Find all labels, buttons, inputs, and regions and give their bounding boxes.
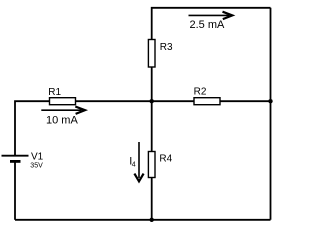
battery V1 [2, 152, 44, 170]
resistor R3 [148, 40, 173, 68]
junction node (bottom) [150, 218, 154, 222]
resistor R1 [48, 87, 75, 105]
wire middle (R1 to R2) [76, 100, 195, 102]
current arrow 10 mA [41, 107, 85, 114]
svg-text:4: 4 [132, 161, 136, 168]
junction node (middle) [150, 99, 154, 103]
wire middle left (left column to R1) [15, 101, 50, 155]
wire R3 bottom to middle node [151, 67, 153, 101]
wire middle node to R4 top [151, 101, 153, 151]
current arrow 2.5 mA [189, 12, 233, 19]
wire battery bottom to bottom wire [14, 161, 16, 219]
wire bottom [15, 219, 271, 221]
junction node (right) [268, 99, 272, 103]
svg-text:35V: 35V [30, 162, 43, 169]
svg-text:10 mA: 10 mA [46, 114, 78, 126]
wire R4 bottom to bottom wire [151, 178, 153, 220]
svg-text:V1: V1 [31, 152, 44, 163]
svg-text:R4: R4 [159, 153, 172, 164]
svg-text:R2: R2 [194, 87, 207, 98]
wire right column [270, 8, 272, 220]
wire top (node between R3 and right branch) [152, 8, 271, 40]
current arrow I4 [134, 142, 143, 181]
resistor R2 [194, 87, 220, 105]
svg-text:R3: R3 [160, 42, 173, 53]
svg-text:R1: R1 [48, 87, 61, 98]
resistor R4 [148, 152, 172, 178]
wire middle right (R2 to right column) [220, 100, 271, 102]
svg-text:2.5 mA: 2.5 mA [190, 19, 226, 31]
label I4 [129, 156, 136, 169]
